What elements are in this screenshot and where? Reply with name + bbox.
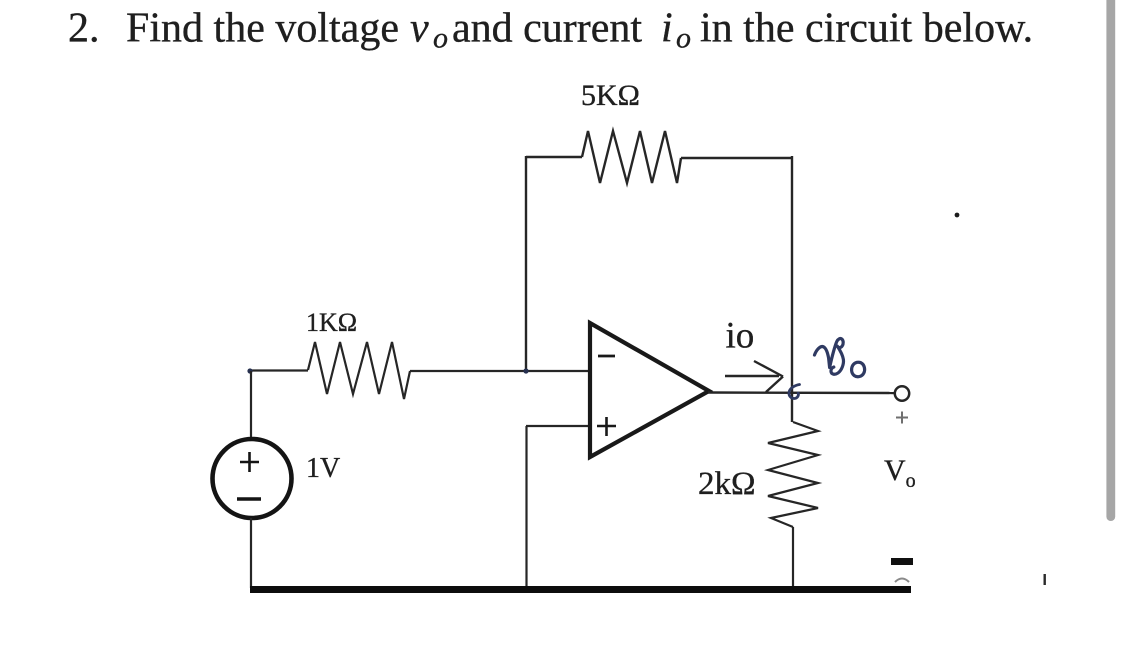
- source V1 1V circle: [213, 439, 292, 518]
- stray dot artifact: [955, 213, 960, 218]
- node: blue curl at output junction: [789, 385, 800, 399]
- svg-text:i: i: [661, 6, 673, 52]
- svg-text:io: io: [726, 316, 755, 357]
- svg-text:Find the voltage: Find the voltage: [126, 6, 399, 52]
- wire: source bottom vertical: [250, 518, 252, 588]
- svg-text:o: o: [676, 22, 691, 55]
- svg-text:1V: 1V: [306, 453, 340, 484]
- ground bus thick line: [250, 586, 911, 593]
- resistor R_f 5K zigzag: [582, 131, 681, 183]
- svg-text:v: v: [410, 6, 429, 52]
- scrollbar: [1106, 0, 1115, 521]
- node: junction dot at inverting input: [523, 368, 528, 373]
- wire: input segment to op-amp inverting input: [410, 370, 590, 372]
- wire: top feedback horizontal left segment: [526, 156, 582, 158]
- resistor R1 1K zigzag: [308, 342, 410, 399]
- wire: top feedback horizontal right segment: [681, 157, 791, 159]
- label Vo minus bar: [891, 558, 913, 565]
- terminal circle output: [895, 386, 909, 400]
- title text: [68, 6, 1033, 55]
- terminal plus sign: [896, 412, 908, 424]
- svg-text:5KΩ: 5KΩ: [581, 79, 640, 112]
- source plus sign: [240, 452, 259, 472]
- wire: non-inverting ground vertical: [525, 426, 527, 588]
- stray tick artifact: [1044, 574, 1046, 585]
- svg-text:1KΩ: 1KΩ: [306, 308, 357, 337]
- wire: feedback left vertical: [525, 156, 527, 372]
- wire: 2k bottom vertical: [792, 527, 794, 588]
- op-amp minus input label: [598, 355, 615, 358]
- op-amp plus input label: [597, 417, 616, 436]
- wire: input left segment: [249, 369, 308, 371]
- wire: output horizontal: [708, 391, 894, 394]
- resistor R2 2k vertical zigzag: [768, 422, 818, 527]
- small curve under minus bar: [895, 579, 909, 583]
- wire: source top vertical: [250, 371, 252, 439]
- wire: feedback right vertical down to 2k resistor: [791, 156, 793, 422]
- op-amp U1 triangle: [590, 323, 709, 457]
- label vo handwritten blue script: [815, 339, 865, 377]
- source minus sign: [237, 497, 261, 500]
- wire: non-inverting input horizontal: [526, 425, 590, 427]
- svg-text:2.: 2.: [68, 6, 100, 52]
- svg-text:in the circuit below.: in the circuit below.: [700, 6, 1033, 52]
- node: junction dot at source top: [247, 368, 252, 373]
- svg-text:and current: and current: [452, 6, 642, 52]
- svg-text:o: o: [433, 22, 448, 55]
- current io arrow: [725, 361, 783, 392]
- svg-text:2kΩ: 2kΩ: [698, 466, 756, 502]
